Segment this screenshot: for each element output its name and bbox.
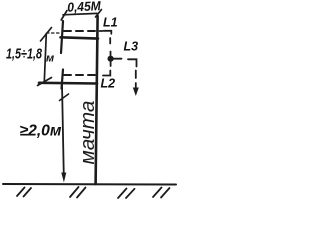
ground line (3, 183, 176, 186)
cable from L1 corner (104, 31, 112, 34)
antenna L2 boom (39, 82, 97, 85)
tick left 0,45м (61, 11, 67, 21)
svg-text:0,45M: 0,45M (67, 0, 102, 15)
junction line right (112, 58, 122, 60)
svg-text:≥2,0м: ≥2,0м (20, 123, 63, 140)
antenna L2 left element (62, 70, 64, 89)
antenna L1 wire (dashed) (64, 30, 95, 32)
junction stub down (110, 62, 112, 67)
antenna L1 wire stub right of mast (100, 30, 103, 32)
ground hatch pair 1 (17, 188, 25, 197)
feeder arrow down (135, 83, 137, 92)
tick on ≥2,0м line (60, 94, 69, 101)
dimension line 0,45м (63, 13, 97, 14)
svg-text:L1: L1 (103, 16, 118, 30)
ground hatch pair 4 (153, 188, 162, 198)
antenna L2 wire (dashed) (64, 74, 95, 76)
antenna L1 boom (61, 37, 99, 38)
dimension line ≥2,0м with arrow to ground (62, 84, 64, 177)
svg-text:1,5÷1,8: 1,5÷1,8 (6, 47, 43, 63)
mast (96, 16, 98, 184)
svg-text:мачта: мачта (77, 101, 99, 165)
ground hatch pair 2 (70, 187, 79, 197)
tick right 0,45м (96, 10, 102, 18)
extension dotted to element (47, 32, 61, 34)
cable dash (109, 38, 111, 44)
feeder dash (135, 71, 137, 79)
ground hatch pair 3 (118, 189, 127, 199)
cable dash (110, 52, 112, 56)
arrowhead to ground (61, 173, 66, 183)
svg-text:м: м (46, 53, 54, 65)
feeder arrowhead (133, 88, 139, 97)
dimension line 1,5÷1,8м (44, 34, 46, 82)
svg-text:L3: L3 (124, 40, 139, 54)
feeder L3 corner (128, 59, 137, 66)
junction dot (108, 56, 114, 62)
tick bottom 1,5÷1,8м (38, 78, 52, 86)
svg-text:L2: L2 (101, 77, 116, 91)
antenna L1 left element (61, 21, 63, 53)
tick top 1,5÷1,8м (41, 28, 52, 42)
cable to L2 corner (103, 71, 110, 76)
